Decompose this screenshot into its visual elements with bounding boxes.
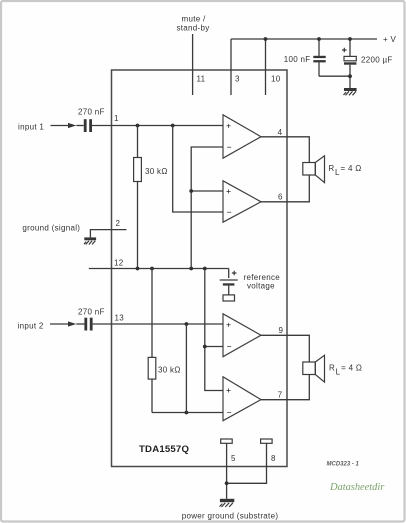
wire A2 output to pin 6 and speaker [261,175,309,202]
svg-text:input 2: input 2 [18,321,44,330]
wire pin 2 to signal ground [90,230,126,238]
svg-text:2200 µF: 2200 µF [361,56,393,65]
junction input2 branch / A4 inverting [185,411,189,415]
junction pin5/pin8 ground [225,481,229,485]
svg-text:−: − [227,142,232,152]
svg-text:voltage: voltage [247,282,275,291]
resistor R1 30 kOhm [134,126,142,269]
svg-text:MCD323 - 1: MCD323 - 1 [327,461,360,467]
svg-text:stand-by: stand-by [176,24,209,33]
op-amp A3 [223,314,261,357]
junction 100nF/2200uF bottoms [348,74,352,78]
capacitor C4 2200 uF [342,39,356,88]
wire input1 branch to A2 inverting input [173,126,224,213]
wire input 1 arrow [51,123,84,128]
capacitor C2 270 nF [84,318,111,331]
svg-text:= 4 Ω: = 4 Ω [341,164,362,173]
svg-text:2: 2 [116,219,121,228]
svg-text:R: R [329,364,335,373]
junction ch1 feedback / rail [189,267,193,271]
wire A1 inverting feedback column [191,147,223,269]
svg-text:−: − [227,407,232,417]
svg-text:30 kΩ: 30 kΩ [158,366,181,375]
junction 100nF/supply [317,37,321,41]
svg-text:mute /: mute / [181,15,206,24]
wire pin 5 to power ground [226,443,228,499]
junction feedback / A2 + [189,189,193,193]
svg-text:+: + [226,186,231,196]
ground (power/substrate) symbol [220,499,235,507]
wire input2 column down [185,324,187,413]
ground (supply decoupling) [344,88,357,95]
svg-text:+: + [226,120,231,130]
svg-text:6: 6 [278,193,283,202]
wire A4 output to pin 7 and speaker [261,375,309,400]
svg-text:13: 13 [115,314,125,323]
svg-text:−: − [227,341,232,351]
junction R1 top [136,124,140,128]
resistor R2 30 kOhm [148,269,156,413]
op-amp A2 [223,181,261,222]
wire pin 8 to power ground [227,443,267,483]
wire A3 output to pin 9 and speaker [261,335,309,362]
op-amp A1 [223,115,261,158]
speaker RL1 [303,156,325,183]
svg-text:3: 3 [235,75,240,84]
svg-text:−: − [227,207,232,217]
svg-text:8: 8 [271,454,276,463]
wire mute/stand-by to pin 11 [192,34,194,95]
wire A1 output to pin 4 and speaker [261,137,309,163]
svg-text:100 nF: 100 nF [284,55,311,64]
svg-text:L: L [336,368,341,377]
wire R2 to A4 inverting input [152,412,224,414]
speaker RL2 [303,355,325,382]
svg-text:+: + [226,385,231,395]
pin 8 tab [261,439,273,443]
junction input2 column [185,322,189,326]
wire input1 to op-amp A1 + [112,125,224,127]
svg-text:5: 5 [231,454,236,463]
junction 2200uF/supply [348,37,352,41]
wire +V supply rail [231,38,377,40]
capacitor C5 reference voltage [220,269,238,302]
value label RL = 4 Ohm (ch1) [328,164,361,177]
junction R2 top [150,267,154,271]
svg-text:10: 10 [271,75,281,84]
svg-text:power ground (substrate): power ground (substrate) [182,511,279,520]
wire branch to A3 inverting input [205,346,224,348]
junction ch2 feedback / rail [203,267,207,271]
svg-text:R: R [328,164,334,173]
svg-text:L: L [335,168,340,177]
junction R1 bottom [136,267,140,271]
wire branch to A2 non-inverting input [191,190,223,192]
svg-text:270 nF: 270 nF [78,108,105,117]
wire input 2 arrow [50,321,84,326]
svg-text:11: 11 [197,75,206,84]
svg-text:12: 12 [114,259,124,268]
svg-text:reference: reference [244,273,281,282]
capacitor C1 270 nF [84,119,112,132]
op-amp A4 [223,377,261,421]
svg-text:Datasheetdir: Datasheetdir [329,482,385,493]
svg-text:1: 1 [114,114,119,123]
capacitor C3 100 nF [313,39,350,76]
svg-text:+ V: + V [383,35,396,44]
ground (signal) symbol [84,237,96,244]
wire pin 3 riser [230,39,232,95]
wire pin 10 riser [265,39,267,95]
junction input1 / A2 inverting column [171,124,175,128]
svg-text:7: 7 [278,391,283,400]
svg-text:270 nF: 270 nF [78,307,105,316]
junction pin10/supply [264,37,268,41]
svg-text:= 4 Ω: = 4 Ω [341,364,362,373]
svg-text:ground (signal): ground (signal) [22,223,80,232]
svg-text:input 1: input 1 [18,122,44,131]
svg-text:4: 4 [278,128,283,137]
svg-text:+: + [226,319,231,329]
wire reference rail (pin 12) [89,268,229,270]
svg-text:30 kΩ: 30 kΩ [145,167,168,176]
svg-text:TDA1557Q: TDA1557Q [139,444,189,455]
wire ch2 feedback column [205,269,224,391]
pin 5 tab [221,439,233,443]
IC body U1 TDA1557Q [112,70,288,467]
value label RL = 4 Ohm (ch2) [329,364,362,377]
junction feedback / A3 - [203,345,207,349]
wire input2 to op-amp A3 + [112,323,224,325]
svg-text:9: 9 [279,326,284,335]
